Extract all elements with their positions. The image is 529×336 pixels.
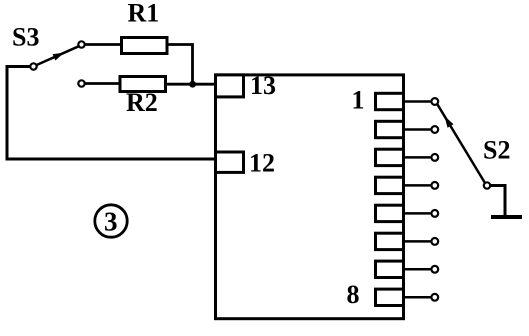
wire: pin 3 stub [404,156,432,159]
pin 12 box [216,152,244,172]
pin 8 box [376,289,404,305]
wire: pin 4 stub [404,184,432,187]
pin 13 box [216,75,244,97]
pin 7 box [376,261,404,277]
junction dot [189,81,196,88]
svg-text:8: 8 [347,280,360,309]
node: contact 2 [431,126,438,133]
wire: pin 2 stub [404,128,432,131]
svg-text:R2: R2 [126,88,158,117]
switch S3 pole terminal [30,63,36,69]
pin 4 box [376,177,404,193]
node: contact 8 [431,294,438,301]
wire: S3 throw to R1 [85,43,121,46]
pin 2 box [376,121,404,137]
resistor R1 [122,38,168,54]
node: contact 4 [431,182,438,189]
node: contact 3 [431,154,438,161]
wire: terminal to R2 [85,82,120,85]
IC U1 body [216,75,404,319]
wire: pin 8 stub [404,296,432,299]
switch S3 throw contact [78,41,84,47]
resistor R2 [120,77,166,92]
node: contact 7 [431,266,438,273]
node label: circled 3 [95,205,127,237]
pin 3 box [376,149,404,165]
svg-text:12: 12 [249,149,275,178]
wire: R1 right to junction [167,45,193,85]
svg-text:R1: R1 [128,0,160,28]
svg-text:13: 13 [250,71,276,100]
svg-text:S2: S2 [483,136,510,165]
node: contact 5 [431,210,438,217]
wire: pin 1 stub [404,100,432,103]
pin 6 box [376,233,404,249]
switch S2 arm [437,104,485,183]
node: R2 input terminal [78,80,84,86]
node: contact 6 [431,238,438,245]
ground [491,215,522,219]
switch S3 arm [37,46,79,65]
pin 1 box [376,93,404,109]
svg-text:S3: S3 [12,23,39,52]
wire: pin 6 stub [404,240,432,243]
wire: left bus from S3 pole down and along bottom to pin 12 [7,67,216,160]
wire: R2 to pin 13 [166,83,216,86]
wire: S2 pole to ground [490,186,505,216]
svg-text:3: 3 [104,207,118,237]
pin 5 box [376,205,404,221]
wire: pin 7 stub [404,268,432,271]
svg-text:1: 1 [352,86,365,115]
switch S2 pole terminal [484,182,490,188]
node: contact 1 [431,98,438,105]
wire: pin 5 stub [404,212,432,215]
